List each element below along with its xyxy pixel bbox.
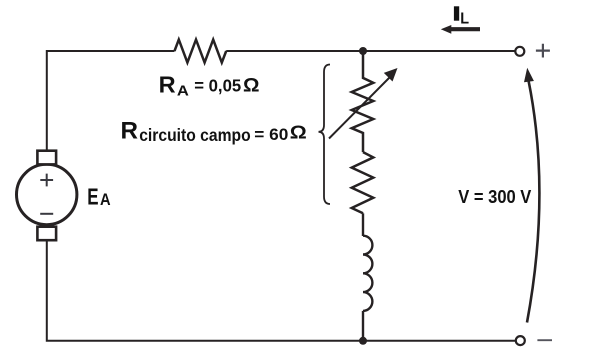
plus sign top right — [536, 44, 550, 58]
brace field group — [319, 65, 331, 205]
terminal + (open circle) — [515, 47, 524, 56]
rheostat arrow — [329, 76, 392, 139]
rheostat zigzag R campo — [352, 51, 374, 152]
dc machine EA: stator circle — [17, 164, 77, 224]
svg-text:A: A — [177, 83, 190, 99]
resistor RA — [175, 40, 227, 63]
svg-text:circuito campo: circuito campo — [139, 125, 251, 145]
node A top junction dot — [359, 47, 367, 55]
svg-text:E: E — [87, 184, 98, 210]
svg-text:Ω: Ω — [243, 76, 260, 97]
arrow IL (points left) — [451, 27, 481, 31]
wire bottom horizontal + left bottom vertical — [47, 241, 515, 341]
wire top-right horizontal — [226, 50, 515, 52]
svg-text:R: R — [159, 72, 176, 98]
inductor field coil — [363, 236, 372, 311]
svg-text:V = 300 V: V = 300 V — [458, 186, 532, 207]
dc machine bottom brush — [37, 227, 56, 241]
label IL — [454, 6, 459, 20]
svg-text:L: L — [460, 11, 469, 28]
terminal - (open circle) — [516, 336, 525, 345]
wire field branch bottom stub — [362, 311, 364, 341]
wire top-left horizontal + left top vertical — [47, 51, 175, 150]
svg-text:R: R — [121, 117, 139, 144]
svg-text:Ω: Ω — [290, 122, 307, 143]
dc machine top brush — [37, 151, 56, 165]
node B bottom junction dot — [359, 337, 367, 345]
voltage arrow (curved, pointing up) — [527, 81, 539, 323]
svg-text:= 60: = 60 — [254, 125, 288, 144]
minus sign inside machine — [40, 213, 53, 215]
svg-text:A: A — [100, 190, 111, 209]
wire field branch mid stub — [362, 213, 364, 236]
plus sign inside machine — [40, 174, 53, 187]
resistor field winding — [352, 152, 374, 213]
minus sign bottom right — [537, 339, 552, 341]
svg-text:= 0,05: = 0,05 — [194, 76, 241, 96]
